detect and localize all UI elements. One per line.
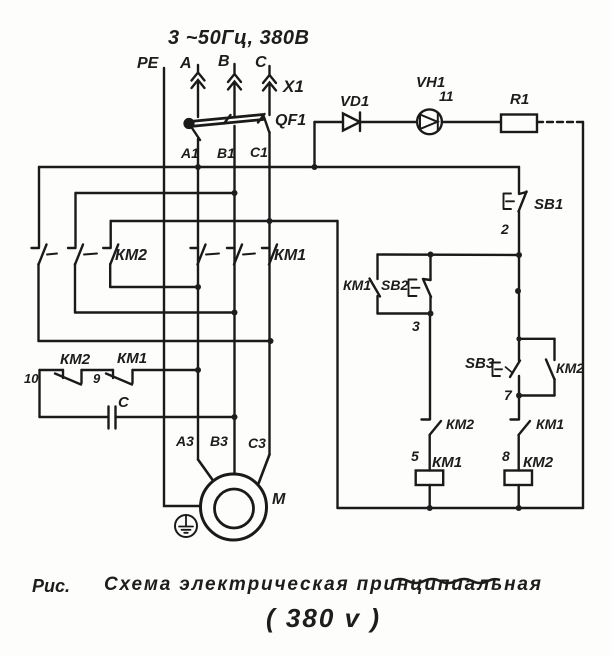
- svg-text:SB3: SB3: [465, 355, 495, 372]
- svg-text:C: C: [118, 394, 130, 411]
- svg-text:7: 7: [504, 387, 513, 403]
- svg-text:PE: PE: [137, 55, 160, 72]
- svg-text:КМ2: КМ2: [60, 351, 91, 368]
- svg-text:9: 9: [93, 371, 101, 386]
- svg-text:B3: B3: [210, 433, 228, 449]
- svg-text:SB1: SB1: [534, 196, 563, 213]
- svg-text:B: B: [218, 53, 230, 70]
- svg-text:SB2: SB2: [381, 277, 408, 293]
- svg-text:КМ2: КМ2: [115, 247, 147, 264]
- svg-text:C3: C3: [248, 435, 266, 451]
- svg-text:Схема электрическая принципиал: Схема электрическая принципиальная: [104, 574, 541, 595]
- svg-text:C: C: [255, 54, 267, 71]
- svg-text:X1: X1: [282, 77, 304, 96]
- svg-text:КМ1: КМ1: [432, 454, 462, 471]
- svg-text:2: 2: [500, 221, 509, 237]
- svg-text:10: 10: [24, 371, 39, 386]
- svg-text:3 ~50Гц, 380В: 3 ~50Гц, 380В: [168, 27, 309, 49]
- svg-text:8: 8: [502, 448, 510, 464]
- svg-text:A: A: [179, 55, 192, 72]
- svg-text:КМ1: КМ1: [343, 277, 371, 293]
- svg-text:Рис.: Рис.: [32, 576, 70, 596]
- svg-text:R1: R1: [510, 91, 529, 108]
- svg-text:М: М: [272, 491, 286, 508]
- svg-text:VD1: VD1: [340, 93, 369, 110]
- svg-text:C1: C1: [250, 144, 268, 160]
- svg-text:A3: A3: [175, 433, 194, 449]
- svg-text:КМ2: КМ2: [556, 360, 584, 376]
- svg-text:3: 3: [412, 318, 420, 334]
- svg-text:QF1: QF1: [275, 112, 306, 129]
- svg-text:КМ2: КМ2: [446, 416, 474, 432]
- svg-text:КМ1: КМ1: [536, 416, 564, 432]
- svg-text:A1: A1: [180, 145, 199, 161]
- svg-text:B1: B1: [217, 145, 235, 161]
- svg-text:КМ2: КМ2: [523, 454, 554, 471]
- svg-text:5: 5: [411, 448, 419, 464]
- svg-text:КМ1: КМ1: [117, 350, 147, 367]
- svg-text:( 380 v ): ( 380 v ): [266, 603, 379, 633]
- svg-text:11: 11: [439, 88, 454, 104]
- svg-text:КМ1: КМ1: [274, 247, 306, 264]
